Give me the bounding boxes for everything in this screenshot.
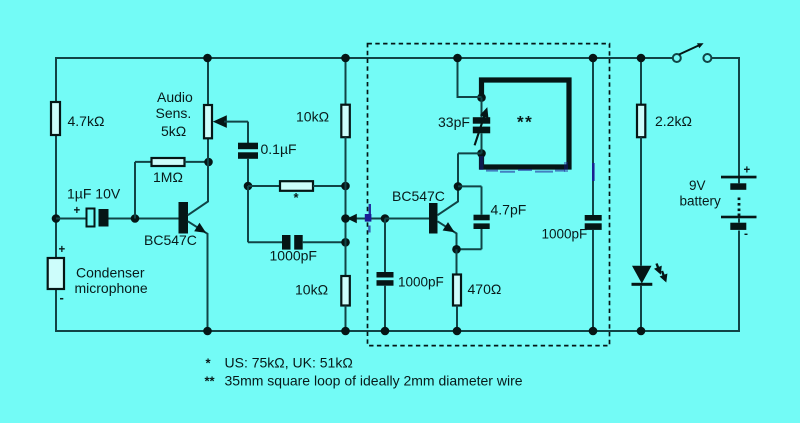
svg-text:10kΩ: 10kΩ (296, 109, 329, 125)
svg-text:Sens.: Sens. (156, 105, 192, 121)
svg-text:battery: battery (680, 194, 722, 209)
svg-text:+: + (59, 244, 66, 256)
svg-text:0.1µF: 0.1µF (261, 141, 297, 157)
svg-text:1µF 10V: 1µF 10V (67, 186, 121, 202)
svg-text:+: + (74, 205, 81, 217)
svg-text:+: + (744, 165, 751, 177)
svg-text:BC547C: BC547C (392, 188, 445, 204)
svg-text:10kΩ: 10kΩ (295, 282, 328, 298)
svg-text:470Ω: 470Ω (468, 281, 502, 297)
svg-text:**: ** (205, 374, 216, 389)
svg-text:-: - (744, 227, 748, 241)
svg-text:5kΩ: 5kΩ (161, 123, 186, 139)
svg-text:Audio: Audio (157, 89, 193, 105)
svg-text:1000pF: 1000pF (542, 226, 588, 241)
svg-text:US: 75kΩ, UK: 51kΩ: US: 75kΩ, UK: 51kΩ (225, 355, 353, 371)
svg-text:microphone: microphone (75, 280, 148, 296)
svg-text:-: - (60, 290, 64, 305)
svg-text:2.2kΩ: 2.2kΩ (655, 113, 692, 129)
svg-text:35mm square loop of ideally 2m: 35mm square loop of ideally 2mm diameter… (225, 373, 523, 389)
svg-text:Condenser: Condenser (76, 264, 145, 280)
svg-text:1MΩ: 1MΩ (153, 169, 183, 185)
svg-text:4.7kΩ: 4.7kΩ (68, 113, 105, 129)
svg-text:**: ** (517, 113, 533, 132)
svg-text:1000pF: 1000pF (270, 248, 317, 264)
svg-text:1000pF: 1000pF (398, 274, 444, 289)
svg-text:9V: 9V (689, 178, 706, 193)
svg-text:BC547C: BC547C (144, 232, 197, 248)
svg-text:33pF: 33pF (438, 114, 470, 130)
svg-text:4.7pF: 4.7pF (491, 202, 527, 218)
